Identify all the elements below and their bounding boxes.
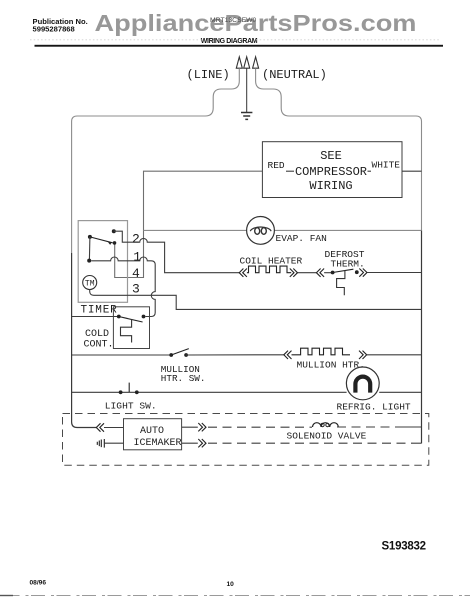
wire: mullion heater to right bus [367,354,422,356]
timer motor TM [83,276,97,290]
plug arrow line [236,57,242,68]
svg-text:ICEMAKER: ICEMAKER [134,438,182,449]
footer scan artifact line [0,595,470,597]
plug arrow ground [244,57,250,68]
svg-text:S193832: S193832 [382,540,426,552]
wire: icemaker out row2 [182,442,198,444]
wire: left bus lower [72,253,97,428]
light switch contact left [119,390,123,394]
wire: solenoid to right bus [337,426,395,428]
cold control bellows jog [121,319,132,342]
svg-text:4: 4 [132,266,140,281]
svg-text:TIMER: TIMER [81,305,118,317]
connector: defrost right [359,269,367,277]
svg-text:3: 3 [132,282,140,297]
svg-text:AUTO: AUTO [140,426,164,437]
mullion switch contact left [169,353,173,357]
cold control box [113,307,149,349]
light switch contact right [135,390,139,394]
wire: connector to defrost contact [324,272,331,274]
timer contact B (term 4) [113,241,117,245]
svg-text:WIRING: WIRING [309,179,352,193]
mullion switch contact right [184,353,188,357]
wire: left bus to cold contact [72,316,117,318]
wire: coil heater to defrost connector [298,272,317,274]
connector: defrost left [316,269,324,277]
wire: TM motor to terminal 3 and right bus [90,290,422,310]
dotted leader line [30,39,441,41]
wire: mullion switch to heater [186,354,284,356]
mullion switch blade [171,349,189,355]
svg-text:SOLENOID VALVE: SOLENOID VALVE [287,430,367,441]
wire: left bus to light switch and lamp [72,391,422,393]
wire: timer common A down to D [88,237,91,261]
timer contact C (term 2) [112,229,116,233]
coil heater element [247,266,291,273]
wire: evap fan row [144,229,422,231]
connector: mullion heater left [284,351,292,359]
wire: line lead to left bus and down to icemaker [72,68,240,253]
wire: ground lead [246,68,248,112]
svg-text:EVAP. FAN: EVAP. FAN [276,233,327,244]
evap fan motor M1 [247,217,275,245]
icemaker dashed enclosure [63,414,429,466]
wire: RED to COMPRESSOR dash [286,170,294,172]
connector: mullion heater right [359,351,367,359]
svg-text:WHITE: WHITE [372,159,401,170]
refrigerator light lamp [346,367,379,400]
lamp filament [355,377,370,393]
svg-text:CONT.: CONT. [84,340,114,351]
wire: connector to icemaker box [104,427,124,429]
connector: row1 right [198,423,206,431]
plug arrow neutral [253,57,259,68]
wire: WHITE to right bus [402,170,422,172]
connector: coil heater left [239,269,247,277]
ground symbol [241,113,252,120]
svg-text:10: 10 [227,581,235,588]
cold control blade [119,317,143,323]
svg-text:SEE: SEE [320,149,342,163]
wire: term 2 from contact C with humps to coil heater row [114,231,239,273]
wire: left bus to mullion switch [72,354,170,356]
timer blade arrowhead [108,242,112,245]
wire: row1 dashed to solenoid [208,426,312,428]
connector: row2 right [198,439,206,447]
svg-text:THERM.: THERM. [331,258,365,269]
timer junction D [87,259,91,263]
connector: row2 plug [97,439,104,448]
svg-text:TM: TM [85,279,95,288]
defrost blade [333,269,354,272]
svg-text:5995287868: 5995287868 [33,25,75,34]
wire: COMPRESSOR to WHITE dash [368,170,372,172]
compressor box [262,142,402,198]
light switch plunger [128,383,130,392]
solenoid valve coil [313,423,339,427]
svg-text:COIL HEATER: COIL HEATER [240,256,303,267]
wire: row2 to icemaker box [104,442,123,444]
cold control contact left [117,315,121,319]
connector: coil heater right [290,269,298,277]
auto icemaker box [124,419,182,450]
wire: term 1 from D to cold control (humps over verticals, hump over wire 3) [91,257,155,317]
svg-text:WIRING DIAGRAM: WIRING DIAGRAM [201,38,258,45]
svg-text:HTR. SW.: HTR. SW. [161,373,206,384]
wire: row2 dashed to right bus [208,442,413,444]
wire: icemaker out row1 [182,426,198,428]
wire: compressor feed (RED) from node down to terminal 4 row [115,171,263,277]
timer blade A-B [90,237,113,243]
connector: icemaker left [96,423,104,431]
wire: right bus lower [421,230,423,443]
svg-text:(LINE): (LINE) [187,68,230,82]
cold control contact right [142,315,146,319]
svg-text:COLD: COLD [85,329,109,340]
svg-text:REFRIG. LIGHT: REFRIG. LIGHT [337,402,411,413]
mullion heater element [292,348,351,355]
svg-text:LIGHT SW.: LIGHT SW. [105,400,157,411]
header rule [35,45,444,47]
wire: neutral lead to right bus [256,68,422,230]
svg-text:MRT13CSEW0: MRT13CSEW0 [210,17,257,24]
svg-text:RED: RED [268,160,285,171]
svg-text:1: 1 [133,250,141,265]
svg-text:2: 2 [132,232,140,247]
svg-text:(NEUTRAL): (NEUTRAL) [262,68,327,82]
defrost bimetal jog [337,271,345,296]
svg-text:08/96: 08/96 [30,580,47,587]
timer contact A (common) [88,235,92,239]
svg-text:COMPRESSOR: COMPRESSOR [295,165,367,179]
defrost thermostat contact right [355,270,359,274]
wire: defrost to right bus [367,272,422,274]
timer box (shaded) [78,221,127,303]
defrost thermostat contact left [331,271,335,275]
